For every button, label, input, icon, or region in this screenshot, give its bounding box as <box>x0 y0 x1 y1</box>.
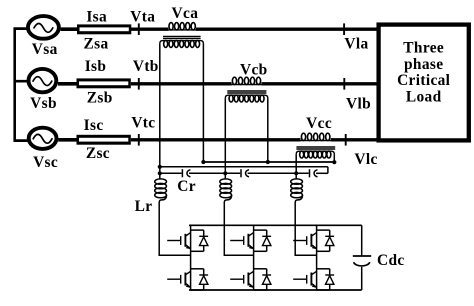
svg-text:Vta: Vta <box>130 9 155 26</box>
svg-text:Vsa: Vsa <box>32 41 58 58</box>
svg-text:Cdc: Cdc <box>377 252 405 269</box>
svg-text:Critical: Critical <box>397 72 451 89</box>
svg-text:Zsc: Zsc <box>86 145 110 162</box>
svg-text:Vsc: Vsc <box>33 154 58 171</box>
svg-text:Cr: Cr <box>177 178 196 195</box>
svg-text:Zsb: Zsb <box>87 89 113 106</box>
svg-text:Vlb: Vlb <box>346 96 371 113</box>
svg-text:Zsa: Zsa <box>83 35 108 52</box>
svg-text:Vla: Vla <box>344 36 368 53</box>
svg-text:Isa: Isa <box>86 9 107 26</box>
svg-text:Vlc: Vlc <box>354 151 377 168</box>
svg-text:Load: Load <box>406 89 442 106</box>
svg-text:Vtb: Vtb <box>133 58 159 75</box>
svg-text:Vcc: Vcc <box>306 115 332 132</box>
svg-text:Vtc: Vtc <box>131 115 155 132</box>
svg-text:Isb: Isb <box>85 58 107 75</box>
svg-text:Isc: Isc <box>84 117 104 134</box>
svg-text:Lr: Lr <box>135 198 153 215</box>
svg-text:Vsb: Vsb <box>30 95 57 112</box>
svg-text:Three: Three <box>403 40 444 57</box>
svg-text:Vcb: Vcb <box>240 61 268 78</box>
svg-text:Vca: Vca <box>172 5 199 22</box>
svg-text:phase: phase <box>404 56 443 73</box>
